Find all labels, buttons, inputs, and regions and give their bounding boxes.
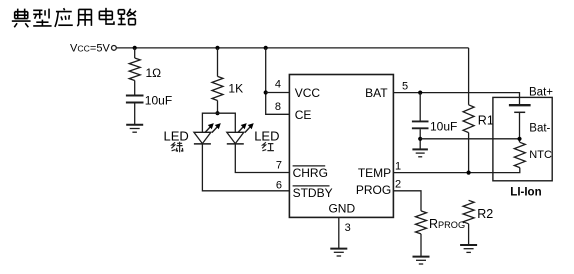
- svg-text:Bat+: Bat+: [529, 86, 553, 98]
- wire C2 to ground: [419, 129, 421, 149]
- svg-text:8: 8: [275, 101, 281, 113]
- title char 电: [99, 8, 114, 24]
- svg-text:LED: LED: [164, 128, 189, 143]
- IC pin name CE: [295, 108, 312, 122]
- wire LED red cathode to pin7: [235, 144, 289, 173]
- label pin 7: [276, 160, 282, 172]
- svg-text:2: 2: [395, 178, 401, 190]
- title char 用: [77, 9, 91, 25]
- svg-text:4: 4: [275, 79, 281, 91]
- label R1: [478, 113, 494, 127]
- svg-text:CHRG: CHRG: [293, 166, 328, 180]
- wire R 1ohm to C 10uF: [134, 81, 136, 95]
- label pin 6: [276, 179, 282, 191]
- svg-text:7: 7: [276, 160, 282, 172]
- wire rail corner to R1: [468, 48, 470, 105]
- title char 路: [118, 9, 136, 25]
- wire C 10uF to ground: [134, 103, 136, 124]
- IC pin name PROG: [356, 183, 391, 197]
- svg-text:R1: R1: [478, 113, 494, 127]
- label RPROG: [429, 217, 465, 231]
- wire TEMP to NTC: [393, 168, 519, 173]
- IC pin name GND: [328, 201, 355, 215]
- terminal VCC: [112, 46, 117, 51]
- label LED red: [254, 128, 279, 143]
- wire LED green cathode to pin6: [202, 144, 289, 191]
- IC pin name STDBY: [293, 186, 333, 200]
- node C2-batminus junction: [418, 137, 422, 141]
- label hong (red hanzi): [262, 142, 274, 151]
- label 10uF output: [430, 120, 457, 134]
- svg-text:CE: CE: [295, 108, 312, 122]
- wire R2 to ground: [468, 224, 470, 245]
- resistor 1ohm: [129, 58, 140, 81]
- label R2: [477, 207, 493, 221]
- node batminus-NTC junction: [517, 137, 521, 141]
- svg-text:LI-Ion: LI-Ion: [510, 187, 541, 199]
- svg-text:5: 5: [402, 80, 408, 92]
- resistor 1K: [212, 76, 223, 100]
- label 1K: [228, 82, 243, 96]
- ground RPROG: [413, 257, 430, 264]
- node rail-VCCpin junction: [264, 46, 268, 50]
- label pin 5: [402, 80, 408, 92]
- svg-text:1K: 1K: [228, 82, 243, 96]
- wire BAT to C2: [419, 93, 421, 121]
- node rail-1K junction: [215, 46, 219, 50]
- resistor R1: [463, 105, 474, 133]
- resistor RPROG: [416, 211, 427, 234]
- svg-text:10uF: 10uF: [145, 94, 172, 108]
- svg-text:3: 3: [345, 222, 351, 234]
- wire RPROG to ground: [420, 234, 422, 257]
- node BAT-cap junction: [418, 91, 422, 95]
- thermistor NTC: [514, 142, 525, 167]
- label pin 8: [275, 101, 281, 113]
- label Bat+: [529, 86, 553, 98]
- wire PROG to RPROG: [393, 191, 421, 211]
- ground input filter: [126, 125, 143, 132]
- node VCC pin junction: [264, 90, 268, 94]
- node LED split: [215, 111, 219, 115]
- label NTC: [529, 149, 552, 161]
- IC pin name BAT: [365, 86, 388, 100]
- svg-text:Bat-: Bat-: [529, 122, 550, 134]
- IC pin name TEMP: [358, 166, 391, 180]
- ground IC: [330, 249, 347, 256]
- label lv (green hanzi): [171, 142, 183, 153]
- capacitor 10uF input: [126, 96, 144, 103]
- svg-text:STDBY: STDBY: [293, 186, 333, 200]
- LED red (D2): [227, 123, 254, 144]
- node rail-1ohm junction: [133, 46, 137, 50]
- svg-text:6: 6: [276, 179, 282, 191]
- LED green (D1): [194, 123, 221, 144]
- label Bat-: [529, 122, 550, 134]
- svg-text:1: 1: [395, 161, 401, 173]
- title char 典: [12, 9, 31, 28]
- wire R1 to TEMP node: [468, 133, 470, 173]
- svg-text:1Ω: 1Ω: [146, 66, 162, 80]
- svg-text:R2: R2: [477, 207, 493, 221]
- label LED green: [164, 128, 189, 143]
- svg-text:TEMP: TEMP: [358, 166, 391, 180]
- node TEMP-R1R2 junction: [467, 171, 471, 175]
- label pin 3: [345, 222, 351, 234]
- ground R2: [460, 245, 477, 252]
- svg-text:GND: GND: [328, 201, 355, 215]
- svg-text:VCC=5V: VCC=5V: [70, 42, 110, 54]
- svg-text:NTC: NTC: [529, 149, 552, 161]
- svg-text:LED: LED: [254, 128, 279, 143]
- title char 型: [33, 9, 51, 26]
- svg-text:PROG: PROG: [356, 183, 391, 197]
- wire rail to VCC-CE pins: [266, 48, 290, 114]
- title char 应: [55, 8, 73, 27]
- ground output cap: [412, 149, 428, 156]
- wire LED anode bus: [202, 113, 235, 132]
- wire BAT pin to battery: [393, 93, 519, 105]
- battery pack box: [493, 97, 552, 180]
- IC pin name VCC: [295, 86, 321, 100]
- wire pin4 stub: [266, 92, 290, 94]
- resistor R2: [463, 200, 474, 224]
- label LI-Ion: [510, 187, 541, 199]
- svg-text:10uF: 10uF: [430, 120, 457, 134]
- battery cell: [509, 105, 531, 112]
- svg-text:VCC: VCC: [295, 86, 321, 100]
- svg-text:RPROG: RPROG: [429, 217, 465, 231]
- IC pin name CHRG: [293, 166, 328, 180]
- svg-text:BAT: BAT: [365, 86, 388, 100]
- label VCC=5V: [70, 42, 110, 54]
- label pin 1: [395, 161, 401, 173]
- wire rail to R 1K: [217, 48, 219, 77]
- wire rail to R 1ohm: [134, 48, 136, 58]
- wire battery minus: [519, 112, 521, 142]
- label 1ohm: [146, 66, 162, 80]
- IC U1 body: [289, 75, 393, 218]
- wire pin3 to ground: [338, 217, 340, 248]
- wire R 1K to LED split: [217, 101, 219, 114]
- label pin 4: [275, 79, 281, 91]
- label 10uF input: [145, 94, 172, 108]
- wire top rail: [116, 47, 468, 49]
- capacitor 10uF output: [412, 121, 429, 128]
- label pin 2: [395, 178, 401, 190]
- wire Bat- return: [420, 138, 519, 140]
